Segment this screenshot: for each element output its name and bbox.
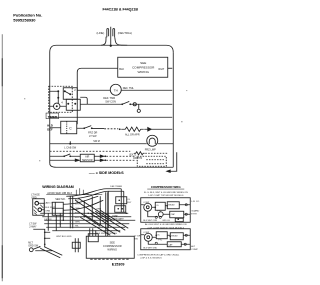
extra dots box1 xyxy=(154,205,179,220)
svg-text:LT SW: LT SW xyxy=(89,135,97,138)
defrost thermostat TH1 xyxy=(110,84,121,95)
svg-text:TH: TH xyxy=(114,88,118,92)
svg-text:(LINE): (LINE) xyxy=(96,31,104,35)
svg-text:WHT BLK GRD: WHT BLK GRD xyxy=(56,236,72,238)
defrost timer dashed box xyxy=(49,86,73,112)
harness extra verticals xyxy=(56,213,60,231)
svg-text:2-SP & S.S. MODELS: 2-SP & S.S. MODELS xyxy=(140,258,162,260)
svg-text:PTC: PTC xyxy=(158,239,163,241)
svg-text:ETTE: ETTE xyxy=(191,213,197,215)
wire: bottom edge of schematic xyxy=(50,163,174,167)
timer contact box upper xyxy=(63,88,77,100)
wire: heater row left xyxy=(50,127,85,130)
sensor arrow left xyxy=(75,159,79,161)
svg-text:RELAY: RELAY xyxy=(168,203,175,206)
dashes under box xyxy=(90,258,130,260)
svg-text:GRD: GRD xyxy=(31,197,37,200)
svg-text:F.L.S. BLK, WHT & LB GROUND WI: F.L.S. BLK, WHT & LB GROUND WIRES ON xyxy=(144,192,188,194)
svg-text:DR HTR: DR HTR xyxy=(133,157,142,160)
svg-text:E15309: E15309 xyxy=(112,263,125,267)
svg-text:PTC: PTC xyxy=(157,210,162,212)
svg-text:DEF TIMER: DEF TIMER xyxy=(110,186,122,188)
svg-text:(NEUTRAL): (NEUTRAL) xyxy=(118,31,132,35)
detail leads 1 xyxy=(141,205,191,217)
svg-text:WHT: WHT xyxy=(75,204,81,206)
side stub arrowhead xyxy=(167,170,171,172)
svg-text:ORN: ORN xyxy=(45,210,50,212)
page edge line xyxy=(1,34,3,281)
overload circle xyxy=(158,212,163,217)
svg-text:5995258930: 5995258930 xyxy=(13,17,36,22)
connector leads xyxy=(39,203,45,213)
svg-text:SENSOR: SENSOR xyxy=(82,159,93,162)
svg-text:C: C xyxy=(69,126,72,130)
sensor right arrows xyxy=(100,155,104,161)
label inside box2 xyxy=(143,232,178,250)
wire: dashed row xyxy=(50,150,131,152)
harness extra dots xyxy=(55,212,97,224)
wire: row defrost thermostat xyxy=(77,89,172,91)
freezer lamp L1 xyxy=(147,135,158,146)
lamp filament xyxy=(149,138,155,144)
harness vertical pair xyxy=(121,189,124,213)
defrost heater R1 zigzag xyxy=(121,127,144,131)
air sensor box xyxy=(80,154,94,162)
svg-text:L.R. CO: L.R. CO xyxy=(191,201,199,203)
svg-text:ALT: ALT xyxy=(191,245,196,248)
svg-text:2: 2 xyxy=(74,88,76,92)
lower left cluster wires xyxy=(33,229,50,247)
svg-text:2-WAY: 2-WAY xyxy=(29,225,37,228)
svg-text:HLD: HLD xyxy=(47,123,53,127)
svg-text:RELAY: RELAY xyxy=(171,234,178,237)
left cluster diagonals xyxy=(40,247,62,258)
wire: plain row xyxy=(49,116,172,118)
svg-text:1-SP COMP TOP MOUNT MODELS: 1-SP COMP TOP MOUNT MODELS xyxy=(148,195,184,197)
wire: sensor dashes right xyxy=(106,156,136,160)
harness diagonal fan xyxy=(75,198,128,235)
timer terminal dots xyxy=(57,90,76,105)
dimension row hooks xyxy=(76,188,83,195)
wire: lamp row xyxy=(50,143,174,145)
svg-text:GRD SW: GRD SW xyxy=(28,245,39,248)
svg-text:DR SW: DR SW xyxy=(44,219,52,221)
svg-text:TIMER: TIMER xyxy=(48,115,58,119)
svg-text:SW M: SW M xyxy=(93,140,100,143)
plug P1 xyxy=(107,29,115,38)
label see compressor wiring xyxy=(132,61,155,74)
scan speckle noise xyxy=(24,90,187,173)
component small circle on row xyxy=(133,103,136,106)
wire: heater row mid dashed xyxy=(92,128,105,130)
svg-text:RLY: RLY xyxy=(127,202,132,204)
dashes in box xyxy=(146,160,164,164)
svg-text:OL: OL xyxy=(127,199,131,201)
svg-text:SW: SW xyxy=(134,238,138,240)
svg-text:COMPRESSOR RUN CAP & GRD ON AL: COMPRESSOR RUN CAP & GRD ON ALL xyxy=(137,253,180,256)
wire: row timer contact xyxy=(80,97,172,104)
timer internal wires xyxy=(49,91,70,106)
lower box corner parts xyxy=(88,234,98,242)
svg-text:ALL BLK WHT & LB GROUND WIRES: ALL BLK WHT & LB GROUND WIRES ON xyxy=(145,223,187,226)
relay rects 2 xyxy=(156,232,167,239)
svg-text:SEE: SEE xyxy=(140,61,146,65)
compressor motor circle 1 xyxy=(144,203,152,211)
connector hatch xyxy=(34,205,44,215)
svg-text:DEF. TML: DEF. TML xyxy=(123,87,135,90)
connector box with holes xyxy=(33,199,45,216)
svg-text:WIRING: WIRING xyxy=(137,70,149,74)
dimension labels row xyxy=(46,194,102,196)
svg-text:WIRING: WIRING xyxy=(107,247,117,251)
small heater zigzag ext row xyxy=(134,152,144,155)
svg-text:COMPRESSOR: COMPRESSOR xyxy=(103,244,122,248)
svg-text:COMP: COMP xyxy=(191,249,198,251)
connector stubs left of box xyxy=(75,238,78,252)
side models dashed box xyxy=(137,156,166,166)
wire label stack xyxy=(75,199,81,227)
svg-text:GRN: GRN xyxy=(96,208,101,210)
wire: plug left lead xyxy=(101,37,106,46)
svg-text:4: 4 xyxy=(61,100,63,104)
switch S1 dots xyxy=(121,103,131,105)
svg-text:WHT: WHT xyxy=(158,67,164,71)
harness bus lines xyxy=(40,213,135,231)
svg-text:CAP: CAP xyxy=(171,213,176,216)
harness vertical pair left xyxy=(70,196,73,228)
harness verticals into lower box xyxy=(106,192,108,236)
sensor switch blade xyxy=(64,154,70,156)
detail leads 2 xyxy=(141,235,191,245)
harness top curve wires xyxy=(63,189,124,211)
svg-text:LT DR: LT DR xyxy=(134,235,141,237)
svg-text:COMPRESSOR: COMPRESSOR xyxy=(132,65,155,69)
svg-text:GRN: GRN xyxy=(75,221,80,223)
compressor block box xyxy=(118,57,168,77)
thermostat hook xyxy=(137,104,140,112)
sensor right dots xyxy=(104,155,106,161)
door switch S2 blade xyxy=(84,126,91,129)
left cluster switch xyxy=(29,248,33,252)
wire: sensor row top xyxy=(50,155,101,157)
harness extra diagonal xyxy=(70,206,100,226)
svg-text:SEE: SEE xyxy=(110,240,115,244)
box1 terminal circles xyxy=(155,204,187,219)
extra dots box2 xyxy=(155,234,171,237)
svg-text:CAP: CAP xyxy=(168,243,173,246)
plug ground dot xyxy=(110,45,112,47)
svg-text:BLK WHT: BLK WHT xyxy=(45,207,55,209)
svg-text:DEF. TMR: DEF. TMR xyxy=(103,96,115,100)
svg-text:----- = SIDE MODELS: ----- = SIDE MODELS xyxy=(89,171,124,175)
wire: inner branch left edge xyxy=(77,68,118,124)
small cap stub xyxy=(175,218,183,221)
svg-text:SER NO.: SER NO. xyxy=(55,198,66,201)
ptc relay rects xyxy=(155,202,165,210)
switch S1 blade xyxy=(122,101,129,104)
harness junction dots xyxy=(62,212,127,228)
label lower box text xyxy=(103,240,122,251)
wire: heater row right xyxy=(151,128,173,130)
box2 terminal circles xyxy=(155,234,187,245)
compressor motor circle 2 xyxy=(144,233,152,241)
wire: sensor row bottom xyxy=(50,159,101,161)
svg-text:FRZ LMP: FRZ LMP xyxy=(145,147,156,151)
door switch S2 dots xyxy=(83,127,92,129)
svg-text:BLK: BLK xyxy=(119,67,124,71)
relay box mid2 xyxy=(115,206,126,213)
wire: side stub xyxy=(167,152,177,171)
timer contact box lower xyxy=(66,99,80,110)
svg-text:GRD LB: GRD LB xyxy=(162,220,170,222)
mid cluster dots xyxy=(117,199,123,209)
svg-text:TMR: TMR xyxy=(84,194,89,196)
svg-text:CAB LT: CAB LT xyxy=(44,201,52,204)
compressor detail box 1 xyxy=(141,198,191,223)
svg-text:L CAB SW: L CAB SW xyxy=(64,147,76,150)
svg-text:OL: OL xyxy=(157,234,161,236)
timer label box xyxy=(46,113,59,119)
timer motor M1 xyxy=(54,103,60,109)
svg-text:WIRING DIAGRAM: WIRING DIAGRAM xyxy=(42,185,74,189)
page edge dark segment xyxy=(1,58,3,278)
label inside box1 xyxy=(143,202,175,222)
svg-text:COMPRESSOR WRG: COMPRESSOR WRG xyxy=(151,185,182,189)
wire: compressor box to right bus xyxy=(168,67,173,69)
wire: plug right lead xyxy=(115,37,128,45)
lower see compressor box xyxy=(86,236,134,258)
svg-text:SW CON: SW CON xyxy=(105,99,116,103)
svg-text:COMP: COMP xyxy=(143,202,150,204)
svg-text:A1500 SER 10B MLX: A1500 SER 10B MLX xyxy=(47,191,72,195)
svg-text:BLK WHT GRN ORG: BLK WHT GRN ORG xyxy=(96,233,117,235)
junction dot xyxy=(119,128,121,130)
junction block box xyxy=(52,202,63,215)
lamp row tick xyxy=(69,141,71,144)
wire: right bus xyxy=(172,52,174,167)
relay box mid xyxy=(116,197,127,204)
wire: ext row dashes xyxy=(145,152,168,154)
svg-text:BLK WHT GRD: BLK WHT GRD xyxy=(143,247,157,249)
svg-text:GUARD: GUARD xyxy=(191,209,199,212)
wire: outer box top edge and left bus xyxy=(50,45,174,163)
svg-text:BLK WHT ORN: BLK WHT ORN xyxy=(143,220,157,222)
harness vertical drops xyxy=(48,191,108,231)
compressor detail box 2 xyxy=(141,229,191,250)
defrost limit box C1 xyxy=(61,121,77,134)
svg-text:F44C21B & F44Q21B: F44C21B & F44Q21B xyxy=(102,7,138,11)
plug ground pin xyxy=(110,27,112,46)
svg-text:COMP: COMP xyxy=(143,232,150,234)
svg-text:ALL OR APR: ALL OR APR xyxy=(125,133,140,136)
diode arrow xyxy=(144,127,151,131)
svg-text:OL: OL xyxy=(156,205,160,207)
